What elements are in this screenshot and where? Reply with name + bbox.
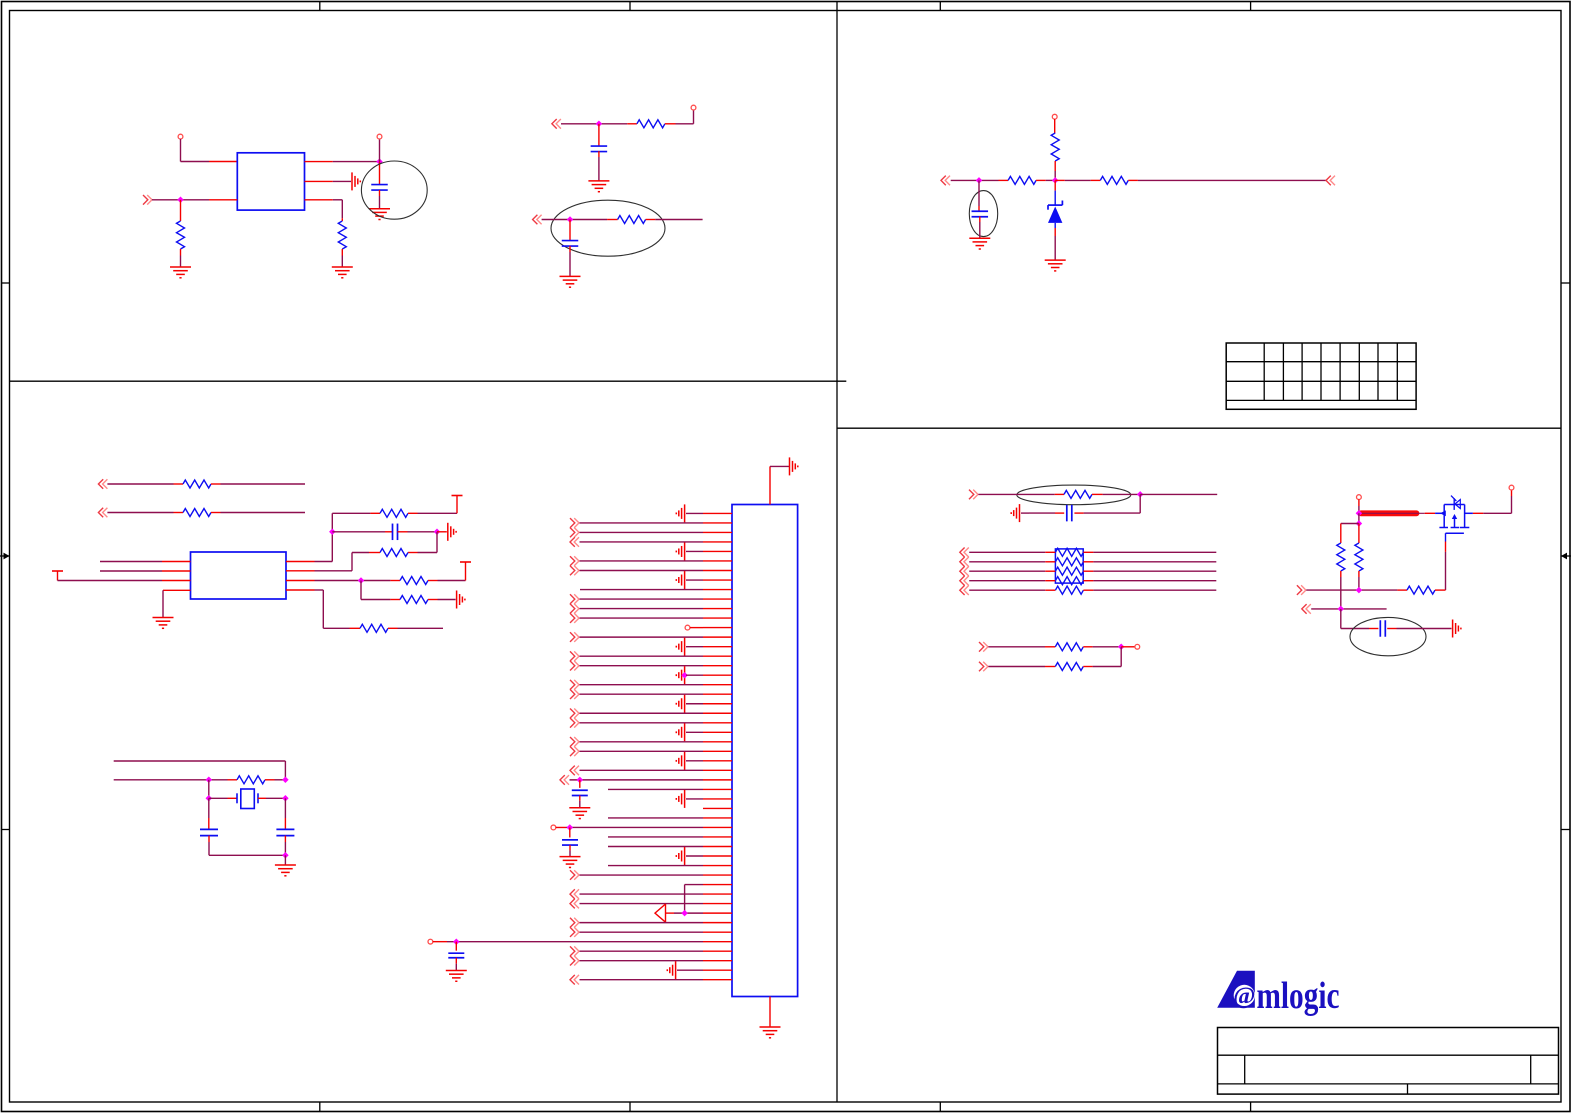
capacitor C9 bbox=[562, 827, 578, 856]
port arrow NET2 bbox=[552, 119, 561, 129]
Amlogic logo @ ring bbox=[1233, 984, 1255, 1010]
resistor R6 bbox=[1008, 176, 1055, 184]
pin 18 earth bars bbox=[676, 666, 688, 684]
port arrow RP1 row1 bbox=[960, 548, 969, 558]
ground U2 bbox=[153, 618, 174, 629]
title block bottom divider bbox=[1407, 1084, 1409, 1094]
wire XTAL second bbox=[114, 779, 237, 781]
junction N11 bbox=[434, 529, 441, 536]
wire N17 to P7 bbox=[1121, 646, 1135, 648]
pin 22 port arrow bbox=[570, 709, 579, 719]
port arrow RP1 row3 bbox=[960, 566, 969, 576]
pin 19 port arrow bbox=[570, 680, 579, 690]
capacitor C3 bbox=[562, 220, 579, 277]
wire pin 38 bbox=[608, 865, 732, 867]
port arrow RP1 row2 bbox=[960, 557, 969, 567]
pin 49 earth bars bbox=[667, 961, 675, 979]
resistor R15 bbox=[237, 776, 285, 784]
ground R1 bbox=[170, 267, 191, 278]
wire N20 to divider bbox=[1358, 513, 1360, 523]
wire U1 pin6 bend bbox=[305, 200, 343, 219]
junction N4a bbox=[976, 177, 983, 184]
earth bars J1 top bbox=[790, 457, 798, 475]
wire N4b right bbox=[1055, 179, 1100, 181]
pin 28 port arrow bbox=[570, 766, 579, 776]
pin 29 port arrow bbox=[560, 775, 569, 785]
port arrow NET6 bbox=[98, 479, 107, 489]
wire gate down bbox=[1445, 533, 1447, 590]
pin 14 port arrow bbox=[570, 632, 579, 642]
title block cell divider right bbox=[1530, 1055, 1532, 1084]
wire XTAL top bbox=[114, 761, 286, 780]
port arrow NET12 bbox=[1302, 604, 1311, 614]
crystal Y1 bbox=[237, 789, 285, 809]
wire U2 pinL4 bbox=[163, 590, 191, 617]
pin 31 earth bars bbox=[676, 790, 684, 808]
wire pin 29 bbox=[570, 779, 733, 781]
pin 39 port arrow bbox=[570, 870, 579, 880]
wire pin 31 bbox=[686, 798, 732, 800]
port arrow NET11 bbox=[1297, 585, 1306, 595]
ground C4 bbox=[969, 238, 990, 249]
wire pin 9 bbox=[580, 589, 732, 591]
capacitor C7 bbox=[276, 798, 294, 855]
wire pin 4 bbox=[580, 541, 733, 543]
annotation ellipse E3 bbox=[969, 191, 997, 237]
wire pin 16 bbox=[580, 655, 733, 657]
resistor R8 bbox=[107, 480, 305, 488]
IC U2 bbox=[191, 552, 287, 599]
zener diode D1 bbox=[1048, 180, 1062, 260]
resistor R16 bbox=[978, 490, 1140, 498]
wire J1 bottom pin bbox=[769, 997, 771, 1027]
wire pin 50 bbox=[580, 979, 733, 981]
resistor R21 bbox=[1337, 524, 1345, 609]
port arrow NET4 bbox=[941, 176, 950, 186]
svg-text:mlogic: mlogic bbox=[1257, 975, 1340, 1017]
pin 25 port arrow bbox=[570, 737, 579, 747]
port arrow IN1 bbox=[143, 195, 152, 205]
wire pin 25 bbox=[580, 741, 733, 743]
wire R7 to port bbox=[1138, 179, 1326, 181]
wire U1 pin8 to node XO bbox=[305, 161, 380, 163]
pin 43 triangle symbol bbox=[655, 904, 666, 922]
pin 8 earth bars bbox=[676, 571, 684, 589]
terminal circle P5 bbox=[1357, 495, 1362, 500]
horizontal divider left section bbox=[10, 380, 847, 382]
svg-text:@: @ bbox=[1233, 984, 1255, 1010]
right border tick y=829.5 bbox=[1561, 829, 1570, 831]
wire U2 pinL2 bbox=[100, 570, 191, 572]
ground C3 bbox=[560, 276, 581, 287]
title block cell divider left bbox=[1244, 1055, 1246, 1084]
wire pin 1 bbox=[686, 512, 732, 514]
wire pin 3 bbox=[580, 531, 733, 533]
pin 10 port arrow bbox=[570, 594, 579, 604]
wire pin 22 bbox=[580, 712, 733, 714]
pin 44 port arrow bbox=[570, 918, 579, 928]
ground XTAL bbox=[275, 865, 296, 876]
port arrow NET3 bbox=[533, 215, 542, 225]
annotation ellipse E2 bbox=[551, 200, 665, 256]
wire pin 26 bbox=[580, 750, 733, 752]
resistor R14 bbox=[360, 624, 443, 632]
wire pin 11 bbox=[580, 608, 733, 610]
resistor RP1 row3 bbox=[969, 567, 1216, 575]
resistor R12 bbox=[400, 572, 466, 585]
annotation ellipse E5 bbox=[1350, 617, 1426, 655]
junction XT5 bbox=[282, 852, 289, 859]
terminal circle P1 bbox=[178, 134, 183, 139]
terminal circle P4 bbox=[1052, 114, 1057, 119]
capacitor C11 bbox=[1029, 505, 1084, 521]
wire R4 out bbox=[655, 219, 702, 221]
pin 41 port arrow bbox=[570, 889, 579, 899]
wire pin 34 bbox=[556, 826, 732, 828]
wire pin 44 bbox=[580, 922, 733, 924]
pin 26 port arrow bbox=[570, 747, 579, 757]
capacitor C1 bbox=[371, 162, 388, 209]
wire R3 to P3 bbox=[676, 110, 694, 124]
wire NET3 bbox=[542, 219, 618, 221]
ground C10 bbox=[446, 970, 467, 981]
junction N17 bbox=[1118, 644, 1125, 651]
junction pin 43 bbox=[681, 910, 688, 917]
junction XT2 bbox=[282, 777, 289, 784]
title block row line 1 bbox=[1218, 1054, 1559, 1056]
wire pin 2 bbox=[580, 522, 733, 524]
resistor R11 bbox=[286, 549, 408, 571]
pin 46 terminal circle bbox=[428, 939, 433, 944]
wire pin 45 bbox=[580, 931, 733, 933]
terminal circle P2 bbox=[377, 134, 382, 139]
wire N21 left bbox=[1341, 523, 1359, 525]
resistor RP1 row5 bbox=[969, 586, 1216, 594]
port arrow NET8 bbox=[969, 490, 978, 500]
wire pin 36 bbox=[608, 845, 732, 847]
right border mid arrow bbox=[1561, 553, 1571, 560]
revision table bbox=[1226, 343, 1416, 409]
resistor R2 bbox=[338, 218, 346, 267]
earth bars U1 pin7 bbox=[352, 172, 360, 190]
wire pin 7 bbox=[580, 570, 733, 572]
pin 2 port arrow bbox=[570, 518, 579, 528]
wire pin 19 bbox=[580, 684, 733, 686]
resistor R5 bbox=[1051, 119, 1059, 180]
junction pin 29 bbox=[577, 777, 584, 784]
pin 37 earth bars bbox=[676, 847, 684, 865]
wire U2 pinL3 bbox=[58, 580, 191, 582]
capacitor C12 bbox=[1380, 620, 1451, 637]
pin 45 port arrow bbox=[570, 927, 579, 937]
junction N10 bbox=[329, 529, 336, 536]
resistor RP1 row4 bbox=[969, 577, 1216, 585]
pin 5 earth bars bbox=[676, 542, 684, 560]
wire pin 23 bbox=[580, 722, 733, 724]
wire NET2 bbox=[561, 123, 637, 125]
wire pin 28 bbox=[580, 769, 733, 771]
wire N18 up bbox=[1120, 647, 1122, 667]
wire pin 43 bbox=[666, 912, 733, 914]
pin 12 port arrow bbox=[570, 613, 579, 623]
junction N16 bbox=[1137, 491, 1144, 498]
port arrow RP1 row4 bbox=[960, 576, 969, 586]
wire N11 down bbox=[408, 532, 437, 553]
resistor R13 bbox=[400, 596, 456, 604]
mosfet Q1 bbox=[1435, 496, 1469, 534]
capacitor C4 bbox=[972, 180, 989, 238]
resistor pack RP1 box bbox=[1055, 549, 1083, 583]
wire bus to Q1 bbox=[1359, 512, 1435, 514]
pin 34 terminal circle bbox=[551, 825, 556, 830]
junction NET2 bbox=[596, 121, 603, 128]
junction XT1 bbox=[206, 777, 213, 784]
wire pin 32 bbox=[703, 807, 732, 809]
resistor R23 bbox=[1407, 586, 1446, 594]
pin 21 earth bars bbox=[676, 695, 684, 713]
capacitor C2 bbox=[591, 124, 608, 181]
pin 16 port arrow bbox=[570, 651, 579, 661]
resistor R17 bbox=[988, 643, 1121, 651]
capacitor C5 bbox=[332, 524, 437, 541]
earth bars R13 bbox=[457, 591, 465, 609]
junction XT4 bbox=[282, 795, 289, 802]
capacitor C6 bbox=[200, 798, 285, 855]
wire pin 40 bbox=[685, 885, 732, 914]
pin 27 earth bars bbox=[676, 752, 684, 770]
annotation ellipse E4 bbox=[1017, 485, 1131, 505]
bottom border tick x=940.3 bbox=[939, 1102, 941, 1112]
junction N12 bbox=[358, 577, 365, 584]
pin 6 port arrow bbox=[570, 556, 579, 566]
resistor R10 bbox=[380, 505, 457, 517]
wire XT5 down bbox=[284, 855, 286, 865]
pin 42 port arrow bbox=[570, 899, 579, 909]
wire pin 21 bbox=[686, 703, 732, 705]
wire NET4 a bbox=[951, 179, 1008, 181]
junction N22 bbox=[1356, 587, 1363, 594]
wire N16 down bbox=[1084, 494, 1141, 513]
wire pin 24 bbox=[686, 731, 732, 733]
wire U2 pinR1 bbox=[286, 513, 380, 561]
junction N4b bbox=[1052, 177, 1059, 184]
wire N16 right bbox=[1140, 493, 1217, 495]
power T1 bbox=[52, 571, 63, 581]
thick bus wire bbox=[1361, 510, 1417, 516]
wire pin 12 bbox=[580, 617, 733, 619]
ground C8 bbox=[569, 808, 590, 819]
wire Q1 drain bbox=[1465, 490, 1512, 513]
wire XT3 right bbox=[209, 797, 237, 799]
ground C9 bbox=[560, 857, 581, 868]
top border tick x=630 bbox=[629, 2, 631, 11]
ground C2 bbox=[588, 181, 609, 192]
wire pin 6 bbox=[580, 560, 733, 562]
left border mid arrow bbox=[0, 553, 10, 560]
wire pin 18 bbox=[686, 674, 732, 676]
wire pin 5 bbox=[686, 550, 732, 552]
wire pin 8 bbox=[686, 579, 732, 581]
pin 48 port arrow bbox=[570, 956, 579, 966]
wire pin 20 bbox=[580, 693, 733, 695]
wire pin 47 bbox=[580, 950, 733, 952]
bottom border tick x=319.8 bbox=[319, 1102, 321, 1112]
resistor R7 bbox=[1100, 176, 1138, 184]
wire pin 17 bbox=[580, 665, 733, 667]
title block row line 2 bbox=[1218, 1083, 1559, 1085]
junction XO bbox=[376, 158, 383, 165]
capacitor C10 bbox=[448, 942, 464, 970]
junction N23 bbox=[1338, 606, 1345, 613]
junction N21 bbox=[1356, 520, 1363, 527]
top border tick x=940.3 bbox=[939, 2, 941, 11]
pin 47 port arrow bbox=[570, 946, 579, 956]
port arrow NET5 bbox=[1326, 176, 1335, 186]
port arrow NET9 bbox=[979, 642, 988, 652]
pin 24 earth bars bbox=[676, 723, 684, 741]
left border tick y=283 bbox=[2, 282, 10, 284]
wire pin 37 bbox=[686, 855, 732, 857]
resistor R4 bbox=[618, 216, 656, 224]
wire U2 pinL1 bbox=[100, 561, 191, 563]
wire pin 49 bbox=[677, 969, 732, 971]
terminal circle P7 bbox=[1135, 644, 1140, 649]
wire to U1 pin1 bbox=[181, 161, 238, 163]
top border tick x=1250.6 bbox=[1250, 2, 1252, 11]
earth bars C5 bbox=[437, 523, 456, 541]
wire pin 10 bbox=[580, 598, 733, 600]
left border tick y=829.5 bbox=[2, 829, 10, 831]
annotation ellipse E1 bbox=[361, 161, 427, 219]
wire N23 down bbox=[1341, 609, 1379, 629]
junction NET3 bbox=[567, 216, 574, 223]
pin 7 port arrow bbox=[570, 566, 579, 576]
earth bars C12 bbox=[1453, 620, 1461, 638]
wire NET12 bbox=[1311, 608, 1386, 610]
wire pin 33 bbox=[608, 817, 732, 819]
port arrow NET7 bbox=[98, 508, 107, 518]
wire pin 27 bbox=[686, 760, 732, 762]
Amlogic logo flag bbox=[1217, 971, 1255, 1008]
wire U1 pin7 to earth bbox=[305, 180, 352, 182]
wire pin 39 bbox=[580, 874, 733, 876]
wire pin 42 bbox=[580, 903, 733, 905]
wire pin 13 bbox=[690, 627, 732, 629]
resistor RP1 row2 bbox=[969, 558, 1216, 566]
pin 11 port arrow bbox=[570, 604, 579, 614]
wire U2 pinR4 bbox=[286, 590, 360, 628]
vertical section divider bbox=[836, 2, 838, 1103]
power T3 bbox=[460, 562, 471, 572]
capacitor C8 bbox=[572, 780, 588, 807]
pin 3 port arrow bbox=[570, 528, 579, 538]
wire XT1 down bbox=[208, 780, 210, 799]
wire pin 14 bbox=[580, 636, 733, 638]
pin 23 port arrow bbox=[570, 718, 579, 728]
ground J1 bottom bbox=[760, 1027, 781, 1038]
earth bars C11 bbox=[1011, 504, 1029, 522]
junction N20 bbox=[1356, 510, 1363, 517]
wire port to U1 pin2 bbox=[152, 199, 237, 201]
top border tick x=319.8 bbox=[319, 2, 321, 11]
ground R2 bbox=[332, 267, 353, 278]
wire NET11 bbox=[1306, 589, 1407, 591]
pin 13 terminal circle bbox=[685, 625, 690, 630]
junction pin 46 bbox=[453, 938, 460, 945]
junction pin 34 bbox=[567, 824, 574, 831]
pin 4 port arrow bbox=[570, 537, 579, 547]
junction XT3 bbox=[206, 795, 213, 802]
wire P1 down bbox=[180, 139, 182, 162]
resistor R3 bbox=[637, 120, 676, 128]
power T2 bbox=[452, 496, 463, 506]
wire node XO up bbox=[379, 139, 381, 162]
connector J1 bbox=[732, 505, 798, 997]
resistor R9 bbox=[107, 509, 305, 517]
pin 15 earth bars bbox=[676, 638, 684, 656]
resistor R1 bbox=[177, 200, 185, 267]
title block outer bbox=[1218, 1028, 1559, 1095]
wire U2 pinR3 bbox=[286, 580, 400, 582]
bottom border tick x=630 bbox=[629, 1102, 631, 1112]
right border tick y=283 bbox=[1561, 282, 1570, 284]
wire P5 down bbox=[1358, 499, 1360, 513]
wire J1 top pin bbox=[770, 466, 789, 504]
resistor R22 bbox=[1355, 524, 1363, 591]
Amlogic logo text bbox=[1257, 975, 1340, 1017]
resistor R18 bbox=[988, 663, 1121, 671]
junction N1 bbox=[177, 197, 184, 204]
wire pin 46 bbox=[433, 941, 732, 943]
wire N12 down bbox=[361, 581, 400, 600]
port arrow NET10 bbox=[979, 662, 988, 672]
ground D1 bbox=[1045, 260, 1066, 271]
wire pin 48 bbox=[580, 960, 733, 962]
wire pin 35 bbox=[608, 836, 732, 838]
pin 17 port arrow bbox=[570, 661, 579, 671]
IC U1 bbox=[237, 153, 304, 210]
pin 1 earth bars bbox=[676, 504, 684, 522]
pin 50 port arrow bbox=[570, 975, 579, 985]
terminal circle P3 bbox=[691, 105, 696, 110]
horizontal divider right section bbox=[837, 427, 1561, 429]
terminal circle P6 bbox=[1509, 485, 1514, 490]
bottom border tick x=1250.6 bbox=[1250, 1102, 1252, 1112]
port arrow RP1 row5 bbox=[960, 585, 969, 595]
resistor RP1 row1 bbox=[969, 548, 1216, 556]
wire pin 15 bbox=[686, 646, 732, 648]
wire pin 41 bbox=[580, 893, 733, 895]
pin 20 port arrow bbox=[570, 689, 579, 699]
ground C1 bbox=[369, 209, 390, 220]
wire pin 30 bbox=[608, 788, 732, 790]
